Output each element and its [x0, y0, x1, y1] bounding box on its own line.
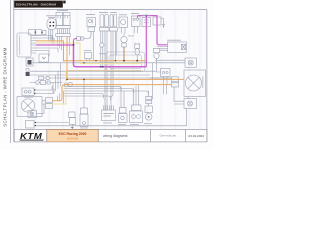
kill switch box: [132, 16, 141, 27]
inline connector on CDI wires: [100, 43, 104, 47]
CDI wires down long to connector: [105, 31, 113, 110]
long mid wire: [44, 77, 172, 79]
headlamp connector stack: [46, 98, 53, 103]
headlamp E1 box: [17, 97, 42, 117]
connector block pins: [104, 106, 114, 111]
voltage regulator U1 body: [17, 33, 31, 57]
KTM logo: [19, 131, 44, 140]
svg-text:03.02.2004: 03.02.2004: [188, 134, 204, 138]
small sensor above bus: [85, 53, 92, 59]
yellow stub headlamp: [53, 70, 67, 104]
generator wires to comb: [57, 29, 69, 34]
connector comb of U1: [31, 36, 37, 54]
connector stack above condenser: [146, 96, 152, 99]
generator G1 winding a: [56, 13, 63, 26]
spark plug P1: [123, 33, 125, 36]
inline connector on mid wire: [64, 83, 67, 86]
svg-text:SCHALTPLAN - WIRE DIAGRAMM: SCHALTPLAN - WIRE DIAGRAMM: [3, 47, 8, 127]
voltmeter box: [39, 54, 49, 62]
wires from ignition switch down: [49, 30, 53, 41]
H1 wires up: [134, 85, 139, 105]
model cell (orange): [47, 130, 98, 142]
wire gray from U1 pin2: [36, 38, 54, 44]
generator comb lower: [56, 34, 70, 37]
inline connector on mid wire left: [39, 76, 44, 80]
magenta main bus: [74, 45, 147, 67]
CDI coil pair: [100, 15, 104, 28]
engine boundary inner box: [109, 55, 142, 69]
tail lamp E3 box: [184, 70, 206, 97]
wire speedo upper: [36, 122, 69, 124]
magenta stub into kill switch: [137, 16, 139, 18]
dimmer switch S2: [26, 68, 29, 71]
border frame top: [14, 9, 207, 11]
faint scan banding: [20, 10, 201, 129]
ground return wire long: [36, 109, 187, 126]
headlamp wire upper: [42, 100, 46, 102]
wire from flasher upper: [36, 86, 53, 90]
yellow wire comb to bus: [36, 43, 142, 64]
orange wire rear lower: [53, 85, 173, 101]
fanout wire e: [64, 96, 111, 100]
engine boundary outer box: [106, 52, 145, 72]
speedometer box: [26, 121, 35, 129]
connector stack rear: [172, 77, 179, 82]
crank sensor: [135, 44, 140, 49]
border frame left double line: [10, 0, 12, 143]
fanout wire b: [64, 89, 134, 93]
ignition switch connector face: [47, 19, 57, 30]
tiny label marks: [24, 10, 203, 128]
link tail box: [187, 97, 189, 99]
grounding box top right: [153, 17, 161, 25]
horn H1 bottom: [132, 105, 142, 111]
generator G1 winding b: [63, 13, 70, 26]
svg-text:wiring diagrams: wiring diagrams: [103, 134, 128, 138]
ground wire w/ arrow: [161, 19, 164, 25]
risers to headlight connector: [58, 91, 64, 104]
condenser sub circuit: [153, 48, 159, 52]
svg-text:KTM: KTM: [20, 131, 42, 140]
pickup wires down: [116, 31, 117, 61]
inline connector X2: [77, 37, 81, 41]
generator output gray wires: [57, 37, 69, 56]
headlamp wire lower: [42, 103, 46, 105]
relay row box a: [29, 30, 36, 36]
tan wire lower: [68, 69, 142, 71]
T1 secondary wire down: [92, 32, 94, 61]
fanout wire a: [64, 86, 121, 91]
wire from S2 lower: [30, 74, 150, 76]
wire from S1: [33, 62, 185, 64]
C1 wire up: [148, 91, 150, 106]
page background: [0, 0, 213, 150]
magenta riser to top: [145, 16, 147, 67]
wires below flasher relay: [164, 77, 168, 85]
coil T1 wire to connector: [84, 32, 91, 39]
flasher relay right: [161, 69, 171, 77]
stubs below horn and kill boxes: [122, 27, 138, 34]
left riser bundle: [53, 63, 61, 94]
svg-text:Gev+-schu.zac: Gev+-schu.zac: [160, 134, 177, 137]
gray wires into rectifier: [157, 47, 168, 51]
orange wire main: comb to bus: [36, 41, 146, 61]
main connector block bottom: [102, 110, 116, 121]
license lamp wires: [174, 87, 184, 104]
magenta wire U1 to junction: [36, 44, 74, 46]
svg-text:SCHALTPLAN - DIAGRAM: SCHALTPLAN - DIAGRAM: [16, 3, 57, 7]
CDI box wire up: [83, 79, 85, 108]
title bar top-left: [14, 1, 63, 8]
wire from flasher lower: [36, 89, 55, 94]
wire gray from U1 pin7: [36, 51, 49, 57]
ignition coil T1: [87, 18, 96, 27]
magenta top bus: [138, 16, 168, 45]
tail lamp wires gray: [150, 60, 185, 78]
generator comb upper: [56, 26, 70, 29]
fanout wire c: [64, 91, 149, 95]
title block frame: [14, 129, 207, 142]
headlamp E1 bulb: [21, 99, 34, 112]
svg-text:EXC Racing 2000: EXC Racing 2000: [59, 132, 87, 136]
regulator rectifier box: [168, 42, 187, 52]
flasher box with indicators: [22, 88, 34, 96]
border frame right: [206, 10, 208, 142]
fanout wire d: [64, 93, 104, 98]
wire gray from U1 pin1: [36, 36, 52, 45]
horn box: [119, 17, 128, 28]
relay row box b: [36, 30, 42, 36]
magenta branch to connector X2: [74, 39, 78, 45]
brake/tail indicator lamp box: [185, 58, 197, 67]
ignition lock bottom: [120, 108, 127, 114]
orange wire generator to rear bus: [67, 37, 184, 80]
junction dots: [66, 15, 147, 80]
tail lamp E3 bulb: [186, 75, 202, 91]
risers right of flasher: [153, 63, 167, 99]
lock wires up: [121, 86, 124, 107]
condenser unit small: [69, 112, 76, 118]
wire gray from U1 pin6: [36, 48, 58, 52]
lighting switch S1: [26, 58, 33, 66]
regulator U1 label stripe: [19, 36, 21, 55]
wire from S2 upper: [30, 70, 156, 72]
wire parking lamp: [37, 104, 45, 114]
parking lamp E2: [28, 111, 37, 118]
inline connector X1: [30, 82, 62, 84]
start aux box: [142, 18, 151, 27]
CDI wires down to magneto bus: [101, 31, 103, 67]
spark plug lead (brown): [123, 47, 125, 61]
svg-text:05-09-AB: 05-09-AB: [67, 136, 78, 140]
license plate lamp E4: [184, 99, 197, 109]
relay row connector: [43, 31, 47, 35]
pickup coil pair: [110, 15, 113, 28]
CDI box bottom: [81, 108, 88, 114]
condenser C1 bottom: [145, 106, 153, 113]
